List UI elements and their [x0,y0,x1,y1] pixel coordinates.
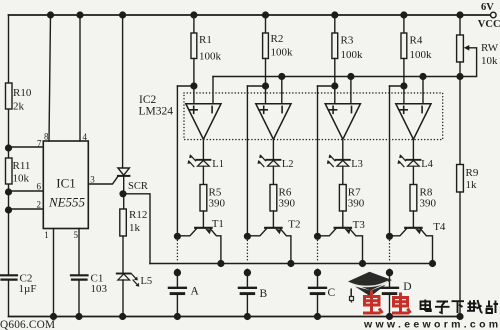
svg-text:6V: 6V [481,2,494,13]
svg-text:1k: 1k [129,222,141,234]
resistor R9 [459,77,461,165]
svg-text:103: 103 [91,283,108,295]
svg-text:IC1: IC1 [56,176,76,191]
svg-text:NE555: NE555 [48,195,86,210]
node plus-input junction ch3 [332,83,338,89]
LED L3 [327,154,363,170]
resistor R3 100k [332,12,363,104]
wire probe jog ch3 [318,85,335,87]
svg-text:390: 390 [209,198,226,210]
wire probe line ch2 [246,86,248,236]
svg-text:R11: R11 [13,160,31,172]
wire opamp output ch4 [412,139,414,159]
wire inverting input ch2 [281,77,283,104]
wire pin7 [9,146,44,148]
svg-text:L5: L5 [141,276,153,287]
svg-text:390: 390 [348,198,365,210]
node plus-input junction ch2 [263,83,269,89]
resistor R6 390 [270,166,296,227]
wire inverting input ch4 [422,77,424,104]
svg-text:RW: RW [481,42,499,54]
L5 light arrows [132,274,138,285]
wire opamp output ch3 [342,139,344,159]
LED L2 [258,154,294,170]
svg-text:10k: 10k [481,55,498,67]
touch plate B [239,269,268,319]
touch plate C [309,269,336,319]
wire inverting input ch3 [350,77,352,104]
wire collector rail [150,263,433,265]
svg-text:R9: R9 [466,167,479,179]
wire bottom ground rail [9,316,462,318]
svg-text:T4: T4 [433,221,446,233]
node emitter/probe junction ch3 [315,233,321,239]
svg-text:1: 1 [44,230,49,240]
resistor R4 100k [401,12,432,104]
svg-text:1µF: 1µF [19,283,37,295]
capacitor C2 [1,275,17,279]
svg-text:IC2: IC2 [139,94,157,106]
transistor T1 [177,218,224,264]
svg-text:390: 390 [279,198,296,210]
svg-text:Q606.COM: Q606.COM [0,319,55,330]
svg-text:2: 2 [37,200,42,210]
touch plate A [169,269,200,319]
wire top supply rail [9,14,491,16]
op-amp comparator ch3 [325,104,360,140]
op-amp comparator ch4 [396,104,431,140]
svg-text:A: A [191,285,200,297]
svg-text:390: 390 [420,198,437,210]
svg-text:VCC: VCC [478,19,500,30]
resistor R5 390 [200,166,226,227]
node emitter/probe junction ch4 [387,233,393,239]
resistor R11 [6,158,13,184]
node collector rail junction ch4 [430,261,436,267]
thyristor SCR [122,15,124,168]
node RW/R9/bus junction [457,74,463,80]
wire probe line ch3 [317,86,319,236]
node emitter/probe junction ch1 [175,233,181,239]
wire SCR to collector bus [123,194,150,264]
wire pin8 [49,15,51,141]
wire pin2 [9,208,44,210]
svg-text:R2: R2 [271,33,284,45]
wire pin3 [88,176,118,184]
watermark site name characters [421,300,499,314]
svg-text:L1: L1 [212,159,224,170]
svg-text:8: 8 [44,132,49,142]
svg-text:C: C [328,287,336,299]
LED L4 [398,154,434,170]
watermark graduation cap [348,272,392,303]
capacitor C1 [71,275,88,279]
wire opamp output ch2 [272,139,274,159]
watermark chongchong red characters [363,291,411,314]
node plus-input junction ch4 [401,83,407,89]
wire pin1 [53,229,55,317]
svg-text:L3: L3 [351,159,363,170]
transistor T3 [318,219,366,264]
touch plate D [381,269,412,319]
wire opamp output ch1 [202,139,204,159]
wire probe line ch4 [389,86,391,236]
svg-text:B: B [260,288,268,300]
svg-text:100k: 100k [341,49,364,61]
potentiometer RW [459,15,461,35]
svg-text:100k: 100k [199,51,222,63]
wire reference bus [213,76,460,78]
wire probe jog ch4 [390,85,404,87]
wire pin5 [78,229,80,317]
resistor R2 100k [263,12,293,104]
svg-text:R3: R3 [341,35,354,47]
resistor R8 390 [410,166,437,227]
wire inverting input ch1 [212,77,214,104]
node collector rail junction ch1 [218,261,224,267]
svg-text:L2: L2 [282,159,294,170]
svg-text:LM324: LM324 [139,106,174,118]
op-amp comparator ch1 [186,104,221,140]
svg-text:T1: T1 [212,218,224,230]
node junction R10/pin7 [6,145,12,151]
svg-text:5: 5 [74,230,79,240]
node SCR cathode junction [120,191,126,197]
svg-text:D: D [403,281,411,293]
svg-text:R4: R4 [410,35,423,47]
svg-text:R1: R1 [199,34,212,46]
channels drawn by group below [169,12,446,319]
node bus junction ch2 [279,74,285,80]
svg-text:R12: R12 [129,209,147,221]
wire probe jog ch2 [247,85,265,87]
resistor R10 [6,83,13,109]
svg-text:1k: 1k [466,179,478,191]
op-amp comparator ch2 [256,104,291,140]
svg-text:10k: 10k [13,173,30,185]
node plus-input junction ch1 [191,83,197,89]
transistor T2 [247,219,300,264]
svg-text:6: 6 [37,182,42,192]
svg-text:L4: L4 [421,159,433,170]
op-amp U1 IC1 NE555 box [43,141,88,229]
node collector rail junction ch2 [288,261,294,267]
svg-text:2k: 2k [13,101,25,113]
wire probe jog ch1 [177,85,194,87]
resistor R12 [120,209,127,236]
svg-text:100k: 100k [410,49,433,61]
svg-text:7: 7 [37,139,42,149]
svg-text:4: 4 [83,132,88,142]
node emitter/probe junction ch2 [245,233,251,239]
resistor R1 100k [191,12,222,104]
LED L5 [117,273,131,275]
node junction pin2 [6,207,12,213]
node collector rail junction ch3 [360,261,366,267]
wire left column [8,15,10,317]
transistor T4 [390,221,446,264]
wire pin4 [79,15,81,141]
node bus junction ch3 [348,74,354,80]
node VCC terminal [491,12,497,18]
dashed IC2 LM324 box [184,93,443,140]
svg-text:T3: T3 [353,219,366,231]
svg-text:100k: 100k [271,47,294,59]
svg-text:www.eeworm.com: www.eeworm.com [363,319,500,330]
wire probe line ch1 [176,86,178,236]
resistor R7 390 [339,166,364,227]
svg-text:R10: R10 [13,87,32,99]
wire pin6 [9,190,44,192]
svg-text:T2: T2 [288,219,300,231]
node bus junction ch4 [420,74,426,80]
LED L1 [188,154,224,170]
node junction R11/pin6 [6,189,12,195]
svg-text:3: 3 [90,175,95,185]
svg-text:SCR: SCR [128,181,148,192]
